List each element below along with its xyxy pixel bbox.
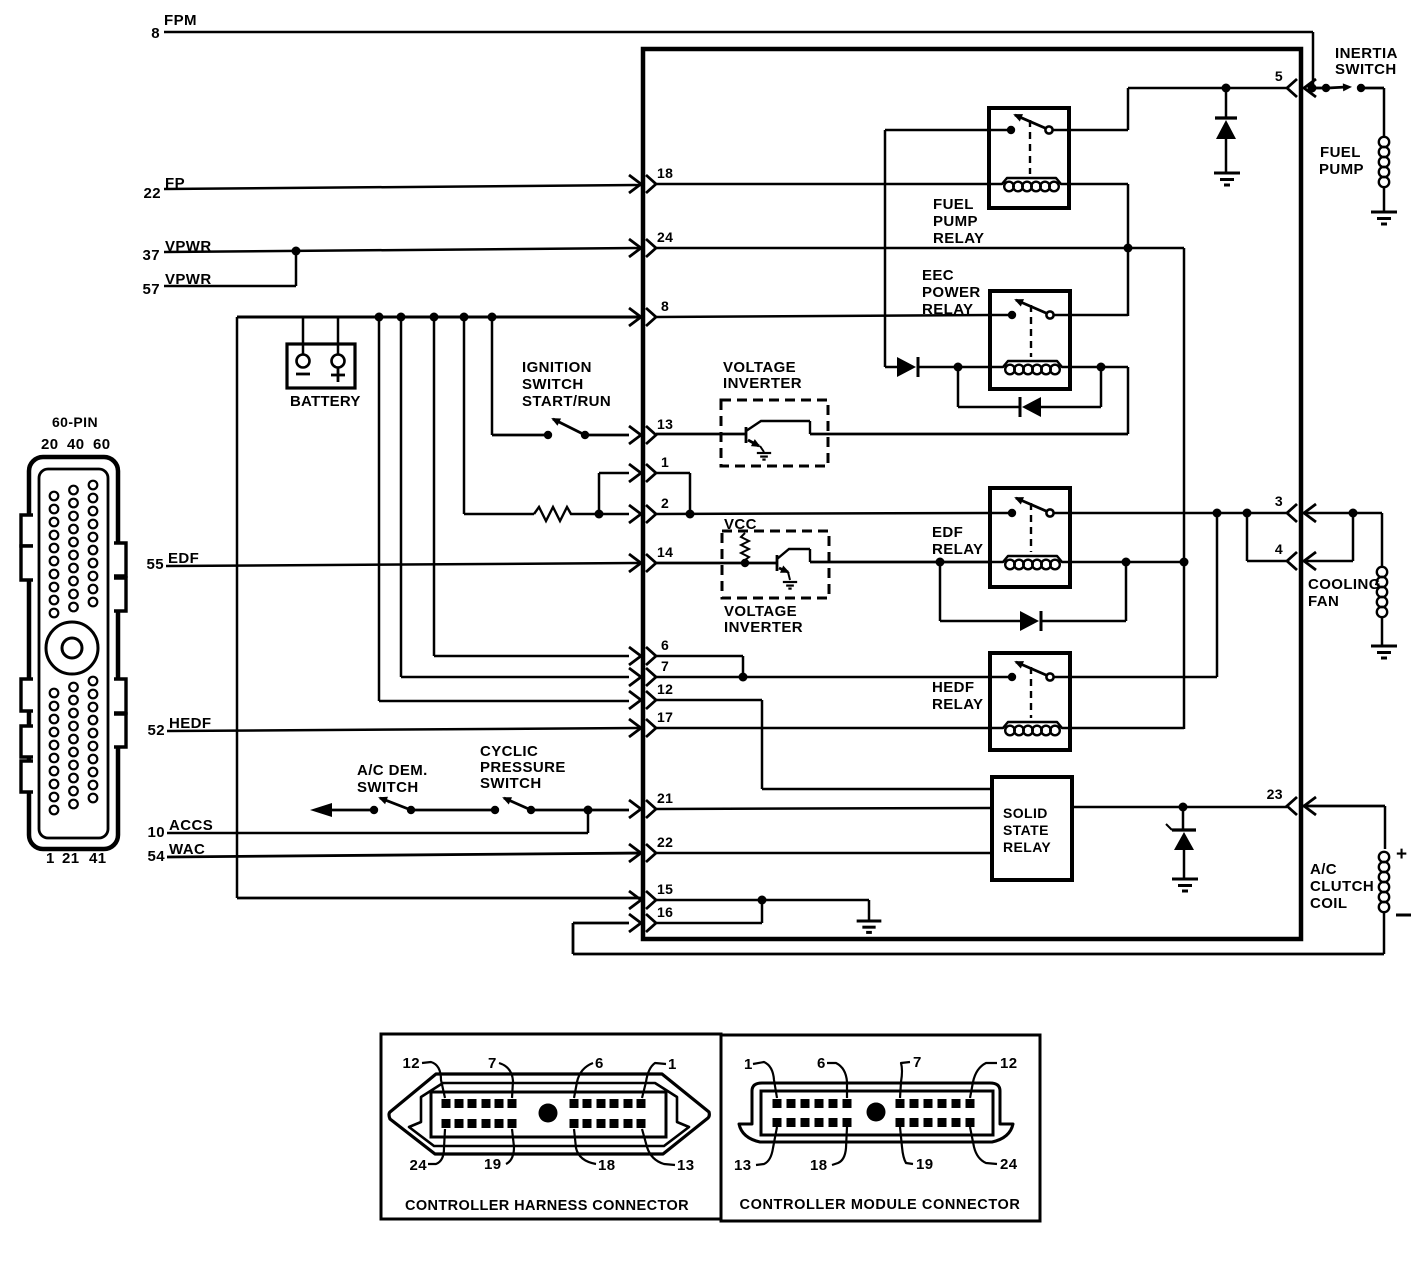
svg-text:BATTERY: BATTERY [290,393,361,410]
svg-text:+: + [1396,844,1407,865]
svg-text:CONTROLLER MODULE CONNECTOR: CONTROLLER MODULE CONNECTOR [740,1197,1021,1213]
svg-text:EEC: EEC [922,267,954,284]
svg-text:6: 6 [817,1055,826,1072]
svg-text:INVERTER: INVERTER [724,619,803,636]
svg-text:41: 41 [89,850,107,867]
svg-text:START/RUN: START/RUN [522,393,611,410]
svg-text:7: 7 [488,1055,497,1072]
svg-text:CLUTCH: CLUTCH [1310,878,1374,895]
svg-text:6: 6 [661,637,669,653]
svg-text:STATE: STATE [1003,822,1049,838]
svg-text:18: 18 [810,1157,828,1174]
svg-text:13: 13 [677,1157,695,1174]
svg-text:13: 13 [657,416,673,432]
svg-text:CYCLIC: CYCLIC [480,743,538,760]
svg-text:RELAY: RELAY [932,541,983,558]
svg-text:12: 12 [403,1055,421,1072]
svg-text:FAN: FAN [1308,593,1339,610]
svg-text:13: 13 [734,1157,752,1174]
svg-text:21: 21 [657,790,673,806]
svg-text:24: 24 [1000,1156,1018,1173]
svg-text:COOLING: COOLING [1308,576,1381,593]
svg-text:INERTIA: INERTIA [1335,45,1398,62]
svg-text:RELAY: RELAY [933,230,984,247]
svg-text:SWITCH: SWITCH [357,779,419,796]
svg-text:40: 40 [67,436,85,453]
svg-text:24: 24 [410,1157,428,1174]
svg-text:PUMP: PUMP [1319,161,1364,178]
svg-text:16: 16 [657,904,673,920]
svg-text:RELAY: RELAY [1003,839,1051,855]
svg-text:37: 37 [143,247,161,264]
svg-text:PRESSURE: PRESSURE [480,759,566,776]
svg-text:A/C DEM.: A/C DEM. [357,762,428,779]
svg-text:FUEL: FUEL [1320,144,1361,161]
svg-text:57: 57 [143,281,161,298]
svg-text:12: 12 [657,681,673,697]
svg-text:SWITCH: SWITCH [522,376,584,393]
svg-text:7: 7 [913,1054,922,1071]
svg-text:IGNITION: IGNITION [522,359,592,376]
svg-text:1: 1 [744,1056,753,1073]
svg-text:14: 14 [657,544,673,560]
svg-text:ACCS: ACCS [169,817,213,834]
svg-text:60: 60 [93,436,111,453]
svg-text:SWITCH: SWITCH [1335,61,1397,78]
svg-text:2: 2 [661,495,669,511]
svg-text:VCC: VCC [724,516,757,533]
svg-text:EDF: EDF [932,524,963,541]
svg-text:5: 5 [1275,68,1283,84]
svg-text:10: 10 [148,824,166,841]
svg-text:PUMP: PUMP [933,213,978,230]
svg-text:22: 22 [144,185,162,202]
svg-text:19: 19 [484,1156,502,1173]
svg-text:4: 4 [1275,541,1283,557]
svg-text:EDF: EDF [168,550,199,567]
svg-text:15: 15 [657,881,673,897]
svg-text:60-PIN: 60-PIN [52,414,98,430]
svg-text:RELAY: RELAY [922,301,973,318]
svg-text:POWER: POWER [922,284,981,301]
svg-text:SWITCH: SWITCH [480,775,542,792]
svg-text:A/C: A/C [1310,861,1337,878]
svg-text:17: 17 [657,709,673,725]
svg-text:24: 24 [657,229,673,245]
svg-text:SOLID: SOLID [1003,805,1048,821]
svg-text:1: 1 [661,454,669,470]
svg-text:20: 20 [41,436,59,453]
svg-text:55: 55 [147,556,165,573]
svg-text:18: 18 [657,165,673,181]
svg-text:7: 7 [661,658,669,674]
svg-text:HEDF: HEDF [932,679,974,696]
svg-text:1: 1 [46,850,55,867]
svg-text:FUEL: FUEL [933,196,974,213]
svg-text:INVERTER: INVERTER [723,375,802,392]
svg-text:8: 8 [151,25,160,42]
svg-text:3: 3 [1275,493,1283,509]
svg-text:12: 12 [1000,1055,1018,1072]
svg-text:CONTROLLER HARNESS CONNECTOR: CONTROLLER HARNESS CONNECTOR [405,1198,689,1214]
svg-text:1: 1 [668,1056,677,1073]
svg-text:22: 22 [657,834,673,850]
svg-text:FPM: FPM [164,12,197,29]
svg-text:RELAY: RELAY [932,696,983,713]
svg-text:23: 23 [1267,786,1283,802]
svg-text:VOLTAGE: VOLTAGE [724,603,797,620]
svg-text:HEDF: HEDF [169,715,211,732]
svg-text:8: 8 [661,298,669,314]
svg-text:54: 54 [148,848,166,865]
svg-text:52: 52 [148,722,166,739]
svg-text:COIL: COIL [1310,895,1347,912]
svg-text:VOLTAGE: VOLTAGE [723,359,796,376]
svg-text:21: 21 [62,850,80,867]
svg-text:6: 6 [595,1055,604,1072]
svg-text:18: 18 [598,1157,616,1174]
svg-text:19: 19 [916,1156,934,1173]
